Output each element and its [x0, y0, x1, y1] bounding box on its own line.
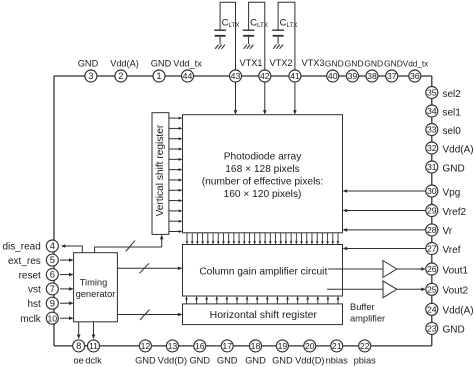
svg-text:GND: GND: [78, 59, 99, 69]
svg-text:18: 18: [251, 341, 261, 351]
pin 22: [359, 340, 371, 352]
svg-text:Vref2: Vref2: [443, 207, 467, 218]
wire: VTX pin down into photodiode array (C1): [235, 82, 237, 113]
pin 11: [88, 340, 100, 352]
pin 18: [250, 340, 262, 352]
svg-text:32: 32: [427, 143, 437, 153]
pin 40: [327, 70, 339, 82]
svg-text:sel2: sel2: [443, 89, 462, 100]
wire: column gain amplifier output to buffer amplifier 1: [328, 268, 383, 270]
svg-text:21: 21: [332, 341, 342, 351]
pin 23: [426, 322, 438, 334]
pin 30: [426, 185, 438, 197]
svg-text:GND: GND: [325, 59, 344, 69]
pin 29: [426, 205, 438, 217]
wire: loop from pin VTX up and over to capacitor C1: [220, 2, 235, 70]
svg-text:ext_res: ext_res: [8, 256, 41, 267]
pin 25: [426, 283, 438, 295]
svg-text:41: 41: [290, 71, 300, 81]
wire: Vr from pin 28 into photodiode array: [344, 229, 426, 231]
wire: timing generator bus to vertical shift register: [95, 236, 162, 253]
wire: vst from pin into timing generator: [60, 288, 72, 290]
wire: Vref2 from pin 29 into photodiode array: [344, 210, 426, 212]
svg-text:35: 35: [427, 88, 437, 98]
ground symbol for capacitor C1: [215, 45, 225, 49]
svg-text:generator: generator: [76, 289, 116, 299]
svg-text:6: 6: [50, 269, 55, 280]
wire: bottom perimeter segment (pins 22-8): [54, 345, 432, 347]
svg-text:5: 5: [50, 254, 55, 265]
svg-text:168 × 128 pixels: 168 × 128 pixels: [225, 164, 299, 175]
svg-text:Vdd(A): Vdd(A): [443, 144, 474, 155]
svg-text:GND: GND: [384, 59, 403, 69]
pin 33: [426, 124, 438, 136]
svg-text:Timing: Timing: [80, 278, 108, 288]
wire: right perimeter segment (pins 35-23): [431, 76, 433, 346]
svg-text:37: 37: [387, 71, 397, 81]
svg-text:Vpg: Vpg: [443, 187, 461, 198]
svg-text:23: 23: [427, 324, 437, 334]
wire: column gain amplifier output to buffer amplifier 2: [327, 288, 383, 290]
block: photodiode array: [183, 115, 343, 233]
svg-text:27: 27: [427, 244, 437, 254]
svg-text:16: 16: [195, 341, 205, 351]
svg-text:Vdd_tx: Vdd_tx: [403, 60, 429, 69]
pin 32: [426, 142, 438, 154]
pin 8: [73, 340, 85, 352]
block: horizontal shift register: [183, 304, 343, 325]
pin name labels: right edge: [443, 89, 474, 336]
pin 19: [276, 340, 288, 352]
capacitor C3 (CLTX): [272, 30, 284, 44]
pin 24: [426, 303, 438, 315]
svg-text:8: 8: [76, 340, 81, 351]
svg-text:20: 20: [305, 341, 315, 351]
wire: ext_res from pin into timing generator: [60, 259, 72, 261]
wire: buffer amplifier 1 to pin 26 (Vout1): [397, 268, 425, 270]
svg-text:7: 7: [50, 283, 55, 294]
pin 43: [230, 70, 242, 82]
bus slash mark on timing-to-column-gain bus: [140, 263, 150, 273]
svg-text:43: 43: [231, 71, 241, 81]
bus slash mark on timing-to-HSR bus: [140, 310, 150, 321]
svg-text:VTX3: VTX3: [302, 58, 325, 68]
bus slash mark on timing-to-VSR bus: [126, 241, 135, 252]
svg-text:Vr: Vr: [443, 226, 453, 237]
svg-text:(number of effective pixels:: (number of effective pixels:: [202, 176, 324, 187]
svg-text:11: 11: [89, 341, 98, 351]
wire: Vpg from pin 30 into photodiode array: [344, 190, 426, 192]
svg-text:Column gain amplifier circuit: Column gain amplifier circuit: [199, 266, 327, 277]
svg-text:25: 25: [427, 284, 437, 294]
svg-text:GND: GND: [151, 59, 172, 69]
svg-text:4: 4: [50, 240, 55, 251]
svg-text:dclk: dclk: [85, 356, 102, 366]
pin 28: [426, 224, 438, 236]
svg-text:sel1: sel1: [443, 107, 462, 118]
svg-text:reset: reset: [19, 270, 41, 281]
wire: loop from pin VTX up and over to capacitor C3: [278, 2, 295, 70]
svg-text:hst: hst: [27, 299, 41, 310]
svg-text:GND: GND: [443, 163, 465, 174]
wire: loop from pin VTX up and over to capacitor C2: [249, 2, 265, 70]
pin 7: [46, 283, 58, 295]
svg-text:10: 10: [47, 313, 57, 323]
ground symbol for capacitor C2: [244, 45, 254, 49]
svg-text:26: 26: [427, 264, 437, 274]
op-amp: buffer amplifier 2 (Vout2): [383, 281, 397, 298]
svg-text:Vout1: Vout1: [443, 265, 469, 276]
svg-text:VTX2: VTX2: [270, 58, 293, 68]
svg-text:GND: GND: [364, 59, 383, 69]
svg-text:39: 39: [348, 71, 358, 81]
svg-text:sel0: sel0: [443, 126, 462, 137]
pin 26: [426, 263, 438, 275]
svg-text:30: 30: [427, 186, 437, 196]
wire: dis_read output from timing generator to pin 4: [65, 246, 82, 253]
svg-text:GND: GND: [443, 325, 465, 336]
svg-text:GND: GND: [189, 356, 210, 366]
svg-text:19: 19: [278, 341, 288, 351]
pin 9: [46, 297, 58, 309]
svg-text:vst: vst: [28, 285, 41, 296]
pin 39: [347, 70, 359, 82]
pin 13: [166, 340, 178, 352]
svg-text:31: 31: [427, 162, 437, 172]
svg-text:29: 29: [427, 206, 437, 216]
pin 20: [304, 340, 316, 352]
svg-text:12: 12: [141, 341, 151, 351]
svg-text:1: 1: [156, 70, 161, 81]
svg-text:GND: GND: [245, 356, 266, 366]
svg-text:9: 9: [50, 297, 55, 308]
pin 44: [182, 70, 194, 82]
svg-text:38: 38: [367, 71, 377, 81]
svg-text:VTX1: VTX1: [240, 58, 263, 68]
svg-text:pbias: pbias: [354, 356, 377, 366]
wire: timing generator bus to column gain amplifier: [117, 267, 181, 269]
ground symbol for capacitor C3: [273, 45, 283, 49]
pin 4: [46, 240, 58, 252]
pin 41: [289, 70, 301, 82]
bus arrows: photodiode array columns down into column gain amplifier (30 lines): [186, 233, 340, 245]
pin name labels: VTX1 VTX2 VTX3: [240, 58, 325, 68]
svg-text:Vertical shift register: Vertical shift register: [155, 124, 166, 216]
op-amp: buffer amplifier 1 (Vout1): [383, 261, 397, 278]
svg-text:Buffer: Buffer: [350, 302, 375, 312]
svg-text:Vdd_tx: Vdd_tx: [173, 59, 202, 69]
wire: buffer amplifier 2 to pin 25 (Vout2): [397, 288, 425, 290]
wire: mclk from pin into timing generator: [60, 317, 72, 319]
svg-text:28: 28: [427, 225, 437, 235]
wire: VTX pin down into photodiode array (C3): [294, 82, 296, 113]
pin 17: [221, 340, 233, 352]
pin 34: [426, 105, 438, 117]
pin 6: [46, 269, 58, 281]
pin 1: [153, 70, 165, 82]
svg-text:3: 3: [88, 70, 93, 81]
block: timing generator: [74, 253, 118, 322]
capacitor C2 (CLTX): [243, 30, 255, 44]
svg-text:Vdd(D): Vdd(D): [158, 356, 187, 366]
svg-text:22: 22: [360, 341, 370, 351]
pin 2: [115, 70, 127, 82]
svg-text:GND: GND: [217, 356, 238, 366]
svg-text:GND: GND: [272, 356, 293, 366]
svg-text:24: 24: [427, 304, 437, 314]
svg-text:mclk: mclk: [20, 314, 42, 325]
svg-text:13: 13: [168, 341, 178, 351]
svg-text:Photodiode array: Photodiode array: [224, 151, 302, 162]
label: buffer amplifier: [350, 302, 385, 324]
svg-text:33: 33: [427, 125, 437, 135]
pin 42: [259, 70, 271, 82]
pin name labels: top edge: [78, 59, 428, 69]
pin 3: [85, 70, 97, 82]
wire: top perimeter segment (pins 3-36): [54, 75, 432, 77]
pin 10: [46, 312, 58, 324]
svg-text:Vref: Vref: [443, 245, 461, 256]
pin 21: [331, 340, 343, 352]
capacitor C1 (CLTX): [214, 30, 226, 44]
svg-text:17: 17: [222, 341, 232, 351]
pin 16: [194, 340, 206, 352]
wire: left perimeter segment (pins 10-4): [53, 76, 55, 346]
block: column gain amplifier circuit: [183, 245, 343, 297]
pin 35: [426, 87, 438, 99]
wire: timing generator down to pin 11 (dclk): [93, 322, 95, 335]
svg-text:44: 44: [183, 71, 193, 81]
wire: Vref from pin 27 into column gain amplifier: [344, 248, 426, 250]
svg-text:dis_read: dis_read: [2, 242, 40, 253]
wire: reset from pin into timing generator: [60, 274, 72, 276]
svg-text:36: 36: [410, 71, 420, 81]
pin 37: [386, 70, 398, 82]
svg-text:Vdd(D): Vdd(D): [295, 356, 324, 366]
wire: timing generator bus to horizontal shift register: [117, 314, 181, 316]
svg-text:GND: GND: [345, 59, 364, 69]
svg-text:amplifier: amplifier: [350, 313, 385, 323]
pin 5: [46, 254, 58, 266]
svg-text:40: 40: [328, 71, 338, 81]
pin name labels: bottom edge: [74, 356, 377, 366]
block: vertical shift register: [152, 113, 169, 235]
pin name labels: left edge: [2, 242, 41, 325]
svg-text:42: 42: [260, 71, 270, 81]
svg-text:Vout2: Vout2: [443, 286, 469, 297]
svg-text:GND: GND: [135, 356, 156, 366]
svg-text:nbias: nbias: [326, 356, 349, 366]
wire: hst from pin into timing generator: [60, 302, 72, 304]
svg-text:2: 2: [118, 70, 123, 81]
wire: VTX pin down into photodiode array (C2): [264, 82, 266, 113]
pin 36: [409, 70, 421, 82]
svg-text:Vdd(A): Vdd(A): [443, 306, 474, 317]
pin 38: [366, 70, 378, 82]
pin 27: [426, 243, 438, 255]
pin 31: [426, 161, 438, 173]
pin 12: [139, 340, 151, 352]
svg-text:oe: oe: [74, 356, 84, 366]
svg-text:Vdd(A): Vdd(A): [110, 59, 139, 69]
wire: timing generator down to pin 8 (oe): [78, 322, 80, 335]
svg-text:Horizontal shift register: Horizontal shift register: [210, 309, 318, 321]
svg-text:160 × 120 pixels): 160 × 120 pixels): [224, 189, 302, 200]
bus arrows: vertical shift register to photodiode array (12 row-select lines): [169, 117, 183, 233]
bus arrows: horizontal shift register up into column gain amplifier (16 lines): [185, 296, 339, 304]
svg-text:34: 34: [427, 106, 437, 116]
